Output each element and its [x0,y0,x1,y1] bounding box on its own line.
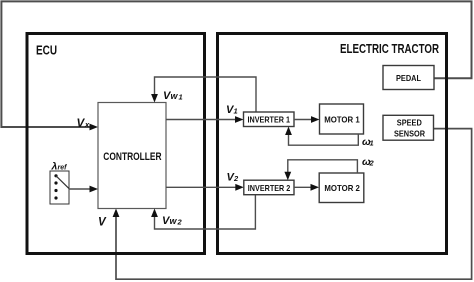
svg-text:V: V [98,217,107,229]
wire inverter1 to motor1 [294,119,313,121]
label Vx [77,118,91,130]
svg-text:w: w [171,91,179,101]
svg-text:1: 1 [370,139,374,148]
svg-text:INVERTER 2: INVERTER 2 [248,183,291,193]
arrowhead into motor2 [311,184,320,191]
arrowhead into motor1 [311,116,320,123]
svg-text:2: 2 [233,174,239,183]
svg-text:PEDAL: PEDAL [396,73,421,83]
arrowhead V2 [235,184,244,191]
label omega2 [362,156,375,168]
wire omega2 motor2 to inverter2 [288,160,358,173]
box MOTOR 2 [319,173,364,203]
arrowhead omega2 into inverter2 top [284,172,291,181]
svg-text:CONTROLLER: CONTROLLER [103,151,161,163]
selector lambda_ref [50,171,69,204]
box ELECTRIC TRACTOR outer [218,34,447,254]
svg-text:x: x [84,120,90,129]
wire V2 controller to inverter2 [166,186,238,188]
label omega1 [362,136,374,148]
wire pedal feedback outer loop (Vx) [1,1,471,127]
svg-text:SPEED: SPEED [397,118,422,128]
wire Vw1 inverter1 to controller top [155,77,257,112]
arrowhead Vx into controller [90,124,99,131]
wire V1 controller to inverter1 [166,119,237,121]
svg-text:w: w [170,216,178,226]
svg-text:1: 1 [179,93,183,102]
svg-text:ELECTRIC TRACTOR: ELECTRIC TRACTOR [340,41,439,56]
arrowhead Vw1 into controller top [151,94,158,103]
label lambda_ref [51,161,68,173]
wire Vw2 inverter2 to controller bottom [155,195,256,229]
arrowhead Vw2 into controller bottom [151,209,158,218]
svg-text:INVERTER 1: INVERTER 1 [248,114,291,124]
wire omega1 motor1 to inverter1 [289,134,359,145]
svg-text:λ: λ [51,161,58,173]
box MOTOR 1 [320,104,364,134]
wire lambda to controller [69,188,92,190]
box INVERTER 1 [244,112,295,127]
arrowhead V into controller bottom [113,209,120,218]
label Vw1 [163,90,183,102]
label V1 [226,104,238,116]
svg-text:ECU: ECU [36,43,57,58]
svg-text:MOTOR 1: MOTOR 1 [324,115,360,125]
svg-text:2: 2 [177,218,183,227]
svg-text:MOTOR 2: MOTOR 2 [324,183,360,193]
box INVERTER 2 [244,180,294,195]
box PEDAL [383,66,434,90]
box CONTROLLER [98,103,166,209]
arrowhead V1 [235,116,244,123]
arrowhead omega1 into inverter1 bottom [285,127,292,136]
svg-text:SENSOR: SENSOR [394,128,425,138]
svg-text:2: 2 [369,159,375,168]
arrowhead lambda into controller [90,186,99,193]
wire speed sensor feedback bottom loop (V) [116,129,472,280]
svg-text:1: 1 [234,107,238,116]
box ECU outer [27,34,205,254]
svg-text:ref: ref [58,165,68,172]
label Vw2 [162,215,183,227]
label V2 [227,172,240,184]
box SPEED SENSOR [383,115,434,140]
wire inverter2 to motor2 [294,186,313,188]
